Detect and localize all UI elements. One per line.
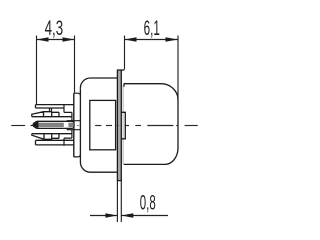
bushing rectangle (front hex/cylinder) [90,100,116,149]
arrowhead right [166,37,179,42]
upper contact wedge [32,112,72,117]
dimension 6,1 [125,16,179,100]
svg-text:0,8: 0,8 [140,191,156,215]
extension line left [116,181,118,222]
flange (mounting plate, grey filled) [117,70,124,181]
svg-text:6,1: 6,1 [144,16,160,40]
arrowhead left [125,37,137,42]
arrowhead pointing right at left ext [105,213,117,218]
extension line left [36,36,38,105]
lower solder lug [36,130,75,146]
arrowhead right [63,37,75,42]
lower contact wedge (mirror) [32,134,72,140]
dimension tail left [90,215,117,217]
body left face (thin grey seam) [122,84,124,164]
extension line right [74,36,76,93]
extension line right [177,36,179,101]
arrowhead pointing left at right ext [121,213,133,218]
main body (rounded housing) [123,84,178,165]
neck (bushing behind front shell) [80,78,117,172]
arrowhead left [37,37,49,42]
dimension line [125,39,179,41]
svg-text:4,3: 4,3 [45,16,64,40]
dimension line [37,39,75,41]
center pin (hatched contact) [32,121,74,128]
extension line right [120,181,122,222]
front shell face [74,93,81,157]
dimension 4,3 [37,16,75,104]
insulator collar at pin exit [67,121,74,130]
upper solder lug [36,105,75,121]
dimension tail right [121,215,168,217]
extension line left [124,36,126,70]
centerline (dash-dot axis) [11,125,197,127]
dimension 0,8 [90,181,168,222]
pilot boss behind flange [121,112,125,139]
body front face stub [123,84,125,87]
